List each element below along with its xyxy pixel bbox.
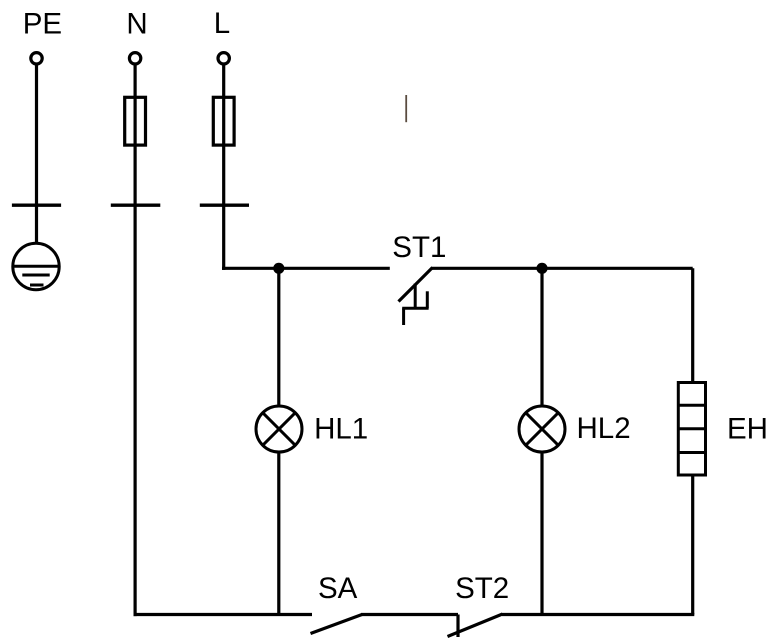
- stray mark artifact: [405, 95, 407, 122]
- svg-text:ST1: ST1: [392, 231, 446, 264]
- lamp HL1: [256, 406, 302, 452]
- svg-text:HL1: HL1: [314, 412, 368, 445]
- terminal N: [129, 53, 140, 64]
- switch ST1 blade: [399, 268, 433, 302]
- svg-text:L: L: [214, 7, 230, 40]
- node junction dot A: [273, 263, 284, 274]
- svg-text:ST2: ST2: [455, 572, 509, 605]
- switch SA blade: [311, 615, 363, 634]
- tick L break mark: [200, 204, 249, 207]
- switch ST2 blade: [448, 614, 503, 637]
- wire L vertical: [222, 65, 225, 270]
- tick N break mark: [111, 204, 161, 207]
- wire EH branch lower: [691, 475, 694, 615]
- heater element EH: [678, 383, 705, 476]
- svg-text:HL2: HL2: [577, 412, 631, 445]
- wire bottom rail left (N corner to SA): [134, 613, 313, 616]
- wire HL1 branch lower: [277, 452, 280, 615]
- terminal L: [218, 53, 229, 64]
- wire top rail left (L corner to ST1): [222, 267, 390, 270]
- tick PE break mark: [12, 204, 61, 207]
- wire HL2 branch lower: [540, 452, 543, 615]
- fuse FU2 (L): [213, 97, 234, 145]
- fuse FU1 (N): [125, 97, 146, 145]
- svg-text:EH: EH: [727, 412, 768, 445]
- switch ST1 thermal actuator: [402, 284, 428, 326]
- wire top rail right (ST1 to EH corner): [431, 267, 693, 270]
- ground earth symbol: [13, 243, 59, 289]
- wire HL2 branch upper: [540, 268, 543, 406]
- wire N vertical: [134, 65, 137, 616]
- svg-text:PE: PE: [23, 7, 62, 40]
- node junction dot B: [536, 263, 547, 274]
- wire HL1 branch upper: [277, 268, 280, 406]
- wire PE vertical: [35, 65, 38, 244]
- svg-text:SA: SA: [318, 572, 358, 605]
- wire bottom rail right (ST2 to EH corner): [502, 613, 694, 616]
- lamp HL2: [519, 406, 565, 452]
- svg-text:N: N: [126, 7, 147, 40]
- wire bottom rail middle (SA to ST2): [361, 613, 458, 616]
- switch ST2 fixed contact stub: [456, 615, 459, 638]
- wire EH branch upper: [691, 268, 694, 382]
- terminal PE: [31, 53, 42, 64]
